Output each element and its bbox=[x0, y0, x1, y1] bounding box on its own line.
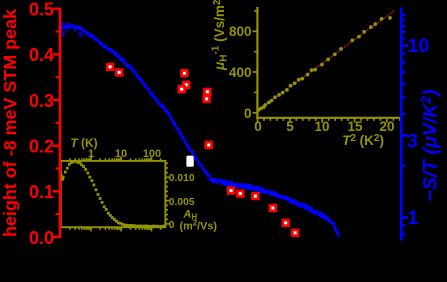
svg-text:0: 0 bbox=[244, 106, 252, 121]
bottom inset top tick labels 1 10 100 bbox=[88, 148, 161, 160]
svg-text:0.005: 0.005 bbox=[169, 197, 195, 208]
svg-text:10: 10 bbox=[408, 35, 430, 57]
svg-text:15: 15 bbox=[347, 119, 363, 134]
red square 8 bbox=[205, 141, 213, 149]
red square 10 bbox=[236, 189, 244, 197]
bottom inset right axis ticks bbox=[165, 163, 169, 224]
top inset x tick labels bbox=[254, 119, 394, 134]
svg-text:0.0: 0.0 bbox=[29, 228, 54, 248]
top inset y ticks bbox=[253, 11, 258, 113]
svg-text:−S/T (μV/K2): −S/T (μV/K2) bbox=[418, 89, 442, 201]
red square 12 bbox=[269, 204, 277, 212]
red square 13 bbox=[282, 219, 290, 227]
red square 3 bbox=[180, 69, 188, 77]
red square 2 bbox=[115, 68, 123, 76]
red axis tick labels bbox=[29, 0, 54, 248]
red axis ticks bbox=[53, 9, 60, 237]
svg-text:T (K): T (K) bbox=[70, 136, 97, 150]
svg-text:0.3: 0.3 bbox=[29, 91, 54, 111]
svg-text:1: 1 bbox=[408, 207, 419, 229]
white square marker on curve bbox=[186, 156, 193, 167]
svg-text:5: 5 bbox=[286, 119, 294, 134]
bottom inset right tick labels bbox=[169, 173, 195, 231]
red square 7 bbox=[202, 95, 210, 103]
svg-text:10: 10 bbox=[115, 148, 127, 160]
blue axis major ticks bbox=[401, 46, 408, 218]
main right axis (blue, log scale) bbox=[400, 8, 403, 241]
svg-text:800: 800 bbox=[229, 24, 252, 39]
bottom inset top axis ticks bbox=[70, 157, 161, 232]
red square 6 bbox=[203, 88, 211, 96]
svg-text:(m2/Vs): (m2/Vs) bbox=[180, 218, 218, 232]
svg-text:3: 3 bbox=[407, 131, 418, 153]
svg-text:10: 10 bbox=[314, 119, 329, 134]
top inset y tick labels bbox=[229, 24, 252, 121]
red square 11 bbox=[251, 192, 259, 200]
svg-text:0: 0 bbox=[254, 119, 262, 134]
svg-text:0.2: 0.2 bbox=[29, 137, 54, 157]
blue axis tick labels bbox=[407, 35, 429, 229]
main blue curve -S/T vs T bbox=[61, 22, 340, 237]
svg-text:height of -8 meV STM peak: height of -8 meV STM peak bbox=[0, 9, 20, 237]
top inset data points bbox=[257, 16, 392, 112]
red square 4 bbox=[182, 81, 190, 89]
svg-text:0.4: 0.4 bbox=[29, 45, 54, 65]
bottom inset data curve (A_H vs T) bbox=[59, 160, 165, 228]
svg-text:0.1: 0.1 bbox=[29, 182, 54, 202]
top inset red fit line bbox=[258, 10, 395, 110]
top inset x axis bbox=[256, 117, 402, 119]
red square 14 bbox=[291, 229, 299, 237]
blue axis minor ticks bbox=[401, 15, 405, 234]
svg-text:20: 20 bbox=[379, 119, 394, 134]
top inset y axis bbox=[256, 7, 402, 119]
main left axis (red) bbox=[59, 8, 62, 239]
svg-text:0: 0 bbox=[169, 220, 175, 231]
bottom-left inset frame bbox=[61, 161, 166, 227]
red square 1 bbox=[106, 63, 114, 71]
svg-text:0.5: 0.5 bbox=[29, 0, 54, 20]
red square 5 bbox=[178, 85, 186, 93]
svg-text:100: 100 bbox=[143, 148, 161, 160]
svg-text:0.010: 0.010 bbox=[169, 173, 195, 184]
top inset x ticks bbox=[258, 118, 400, 123]
svg-text:400: 400 bbox=[229, 65, 252, 80]
red square 9 bbox=[227, 186, 235, 194]
